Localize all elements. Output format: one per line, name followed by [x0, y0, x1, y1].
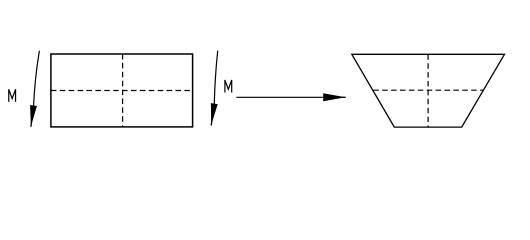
moment arrow (right): solid arrowhead: [211, 103, 218, 125]
moment arrow (left): solid arrowhead: [30, 105, 37, 127]
trapezoid horizontal centerline (dashed): [373, 89, 483, 91]
moment label M (left): [9, 89, 16, 102]
transformation arrow: solid arrowhead: [323, 93, 345, 101]
trapezoid vertical centerline (dashed): [427, 54, 429, 127]
rectangle horizontal centerline (dashed): [51, 90, 193, 92]
rectangle cross-section outline: [51, 54, 193, 127]
trapezoid deformed cross-section outline: [352, 54, 505, 127]
moment label M (right): [225, 80, 232, 93]
moment arrow (left): curved shaft: [34, 51, 40, 106]
rectangle vertical centerline (dashed): [122, 54, 124, 127]
transformation arrow: shaft: [236, 96, 324, 98]
moment arrow (right): curved shaft: [214, 51, 217, 104]
